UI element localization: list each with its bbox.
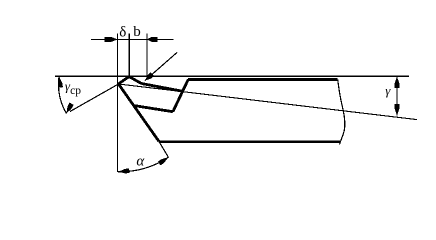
arrow dim left: [104, 37, 117, 42]
gamma-cp arc: [59, 76, 67, 113]
break line: [338, 80, 345, 145]
horizontal reference line through peak: [55, 75, 409, 77]
flank thin extension: [159, 141, 169, 157]
tip rake diagonal (gamma line): [119, 84, 418, 120]
extension line 2 (delta right / b left): [128, 33, 130, 76]
gamma dimension line: [396, 76, 398, 115]
svg-text:b: b: [133, 24, 141, 40]
descent face (peak to valley): [129, 77, 141, 84]
arrow gamma up: [395, 77, 400, 89]
arrow gamma-cp top: [58, 77, 63, 88]
arrow dim right: [147, 37, 158, 42]
second facet A: [141, 84, 182, 92]
top edge of shank: [188, 78, 338, 81]
arrow leader: [145, 72, 154, 80]
extension line 1 (delta left, continues down for alpha): [117, 33, 119, 172]
insert bottom: [134, 106, 173, 112]
front flank: [119, 84, 159, 141]
arrow gamma-cp bottom: [66, 103, 73, 114]
alpha arc: [118, 157, 168, 171]
gamma-cp line (average rake trace): [70, 84, 119, 112]
arrow alpha left: [118, 168, 129, 173]
svg-text:γ: γ: [385, 83, 391, 98]
extension line 3 (b right): [146, 33, 148, 77]
svg-text:cp: cp: [70, 85, 81, 97]
chip-former leader line: [145, 52, 177, 80]
svg-text:α: α: [136, 154, 145, 170]
bottom edge of shank: [159, 140, 341, 143]
arrow alpha right: [158, 157, 168, 165]
svg-text:δ: δ: [119, 25, 126, 41]
dimension line delta/b: [91, 38, 173, 40]
insert back wall: [173, 79, 188, 111]
arrow gamma down: [395, 104, 400, 116]
chamfer face (tip to peak): [119, 77, 130, 85]
